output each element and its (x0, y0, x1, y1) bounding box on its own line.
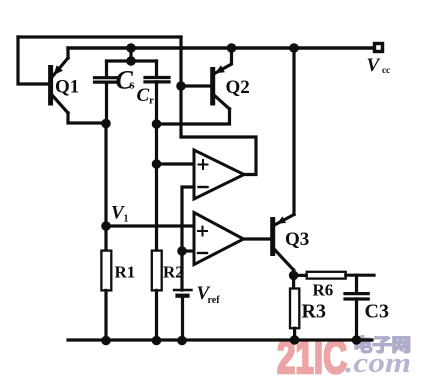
wire V1 to op-amp U2 non-inverting input (106, 224, 194, 227)
svg-text:s: s (130, 77, 135, 92)
label V1 (111, 203, 129, 225)
node U2 inverting tap (177, 246, 187, 256)
op-amp U1 (194, 150, 244, 199)
node Q3 collector / R3 / R6 junction (289, 271, 299, 281)
battery Vref (174, 283, 220, 306)
wire Vcc rail (68, 46, 374, 49)
capacitor C3 (345, 275, 389, 340)
resistor R2 (152, 251, 184, 340)
wire U1 inverting input down to Vref column (182, 187, 194, 290)
wire Q3 collector down to node (292, 270, 295, 275)
svg-text:C: C (137, 85, 150, 106)
node Q1 collector / Cs junction (101, 119, 111, 129)
resistor R1 (101, 226, 135, 340)
wire Q1 emitter up to Vcc rail (66, 48, 69, 58)
transistor Q2 (213, 48, 250, 109)
svg-text:V: V (367, 55, 381, 76)
transistor Q1 (51, 58, 80, 113)
wire left vertical to Q1 base (18, 37, 49, 84)
node R2 at ground rail (152, 336, 162, 346)
svg-text:ref: ref (208, 295, 221, 306)
svg-text:Q3: Q3 (285, 229, 309, 250)
watermark text (277, 330, 411, 379)
node capacitor bridge center (126, 56, 136, 66)
wire ground rail (68, 338, 372, 341)
svg-text:C3: C3 (365, 301, 389, 323)
svg-text:Q2: Q2 (226, 77, 250, 98)
transistor Q3 (273, 215, 310, 271)
wire Q2 base (181, 84, 211, 87)
resistor R6 (294, 272, 374, 300)
wire feedback top outer line (18, 35, 181, 38)
wire feedback from op-amp U1 output to top line and Q2 base column (181, 37, 256, 175)
svg-text:.com: .com (345, 348, 411, 379)
op-amp U2 (194, 213, 244, 265)
node Q2 base tap (176, 81, 186, 91)
node Vcc rail / capacitor bridge (126, 43, 136, 53)
capacitor Cs (95, 61, 135, 123)
wire Cr node down to R2 (155, 82, 158, 251)
node R3 at ground rail (290, 335, 300, 345)
node R1 at ground rail (101, 336, 111, 346)
wire Q3 emitter up to Vcc rail (292, 48, 295, 215)
wire Q1 collector elbow to node (68, 113, 106, 123)
wire Q2 collector to Cr node (157, 109, 230, 124)
wire U2 inverting input (182, 249, 194, 252)
node C3 at ground rail (352, 335, 362, 345)
svg-text:cc: cc (382, 65, 390, 75)
node op-amp U1 non-inverting tap (152, 159, 162, 169)
wire U2 output to Q3 base (244, 237, 271, 240)
wire Cs node down to V1 node (104, 124, 107, 227)
wire op-amp U1 non-inverting input (157, 162, 195, 165)
wire capacitor bridge (107, 48, 157, 61)
svg-text:1: 1 (124, 214, 129, 225)
svg-text:R6: R6 (313, 281, 334, 300)
svg-text:R1: R1 (115, 263, 136, 282)
svg-text:r: r (149, 95, 154, 107)
terminal Vcc (367, 44, 391, 77)
node V1 (101, 221, 111, 231)
svg-text:21IC: 21IC (277, 330, 347, 379)
node Cr / Q2 collector / R2 junction (152, 119, 162, 129)
node Vref at ground rail (177, 336, 187, 346)
resistor R3 (290, 275, 326, 340)
node Q2 emitter at Vcc rail (227, 43, 237, 53)
svg-text:R3: R3 (302, 301, 326, 323)
capacitor Cr (137, 61, 170, 107)
svg-text:Q1: Q1 (55, 77, 79, 98)
wire Vref to ground rail (181, 296, 184, 340)
node Q3 emitter at Vcc rail (289, 43, 299, 53)
